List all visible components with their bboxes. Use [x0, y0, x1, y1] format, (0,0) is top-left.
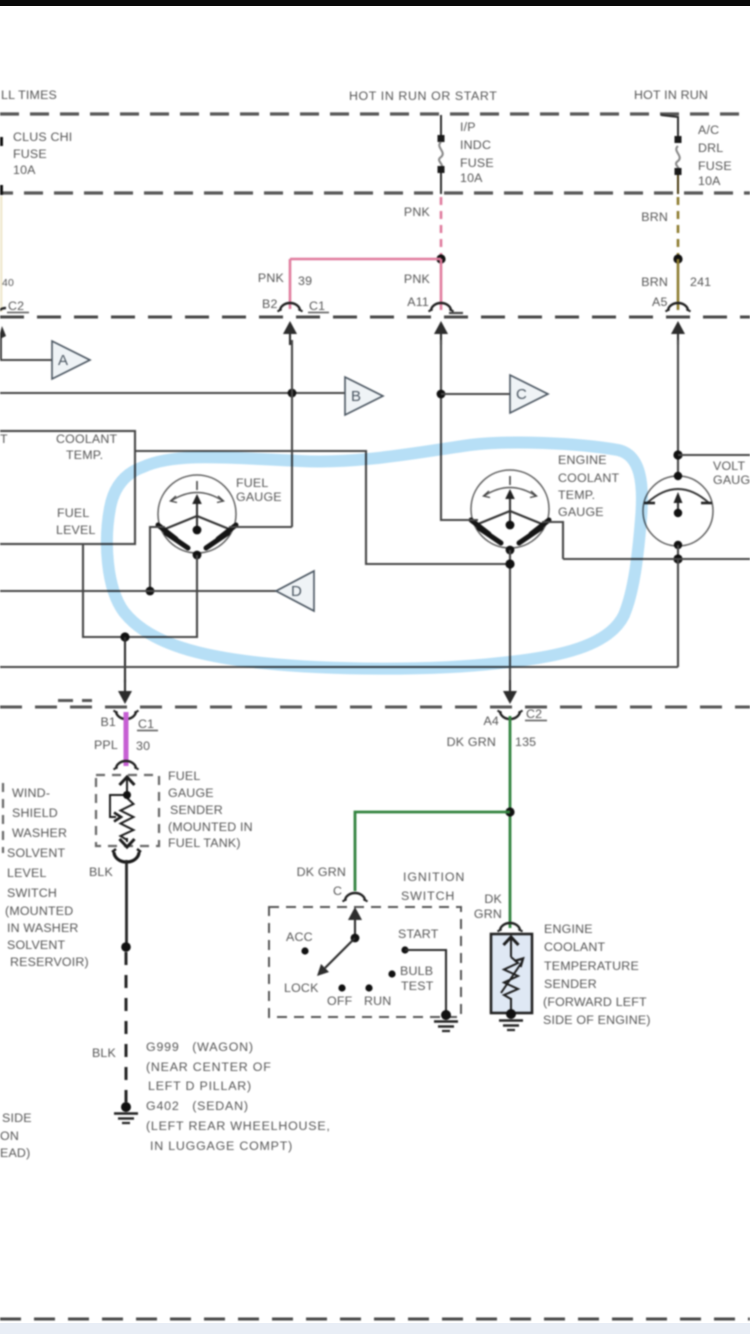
wire from B2 connector down [291, 340, 293, 527]
wire volt bottom [677, 545, 679, 559]
ignition switch box (dashed) [269, 907, 461, 1017]
svg-text:BRN: BRN [641, 210, 668, 224]
svg-text:B: B [351, 388, 361, 405]
wire bus y667 [0, 666, 678, 668]
svg-text:CLUS CHI: CLUS CHI [13, 130, 72, 144]
svg-text:C: C [516, 386, 527, 403]
svg-text:TEMP.: TEMP. [558, 488, 595, 502]
svg-text:COOLANT: COOLANT [544, 940, 606, 954]
coolant sender resistor element [501, 937, 523, 1012]
svg-text:D: D [291, 583, 302, 600]
svg-text:C1: C1 [309, 299, 325, 313]
svg-text:GRN: GRN [474, 907, 502, 921]
svg-text:PNK: PNK [258, 271, 285, 285]
fuse A/C DRL 10A [661, 115, 678, 139]
svg-text:C2: C2 [8, 299, 24, 313]
svg-text:DK: DK [484, 892, 502, 906]
wire PPL 30 [124, 712, 129, 766]
svg-text:GAUGE: GAUGE [168, 786, 214, 800]
connector A5 [666, 303, 691, 312]
triangle B [345, 377, 383, 415]
wire BRN dashed from fuse [677, 197, 680, 255]
svg-text:DK GRN: DK GRN [447, 735, 496, 749]
svg-text:A11: A11 [407, 295, 429, 309]
volt gauge [643, 472, 713, 549]
extra dash stub left [58, 699, 92, 702]
node junction brown [673, 254, 682, 263]
svg-text:G402 (SEDAN): G402 (SEDAN) [146, 1099, 249, 1113]
svg-text:WIND-: WIND- [12, 786, 50, 800]
svg-text:GAUGE: GAUGE [713, 473, 750, 487]
svg-text:C: C [333, 884, 342, 898]
connector A11 [429, 303, 454, 312]
connector below fuel sender [114, 852, 139, 862]
wire ORN 40 (left edge, cut off) [0, 196, 3, 312]
svg-text:I/P: I/P [460, 120, 476, 134]
svg-text:LOCK: LOCK [284, 981, 319, 995]
svg-text:PPL: PPL [94, 738, 118, 752]
engine coolant temp gauge [471, 470, 549, 554]
svg-text:39: 39 [298, 274, 312, 288]
ground G999/G402 [114, 1102, 138, 1123]
svg-text:10A: 10A [698, 174, 721, 188]
svg-text:SOLVENT: SOLVENT [7, 938, 66, 952]
wire PNK horizontal branch 39 [290, 258, 441, 260]
washer switch box edge (cut off) [2, 783, 4, 853]
svg-text:A4: A4 [483, 714, 499, 728]
fuse I/P INDC 10A [440, 115, 442, 139]
svg-text:C2: C2 [526, 707, 542, 721]
fuse block rail top [0, 112, 750, 115]
wire from A11 connector down [440, 340, 442, 521]
svg-text:ON: ON [0, 1129, 19, 1143]
svg-text:SWITCH: SWITCH [401, 889, 455, 903]
wire to triangle C [441, 393, 510, 395]
svg-text:(MOUNTED: (MOUNTED [5, 904, 73, 918]
svg-text:SIDE: SIDE [2, 1111, 32, 1125]
svg-text:FUEL TANK): FUEL TANK) [168, 836, 241, 850]
engine coolant temperature sender box [491, 934, 532, 1013]
svg-text:OFF: OFF [327, 994, 353, 1008]
triangle D [276, 571, 314, 611]
svg-text:START: START [398, 927, 439, 941]
wire PNK vertical to B2 [289, 259, 292, 309]
svg-text:FUEL: FUEL [168, 769, 200, 783]
connector C2 stub at left edge [0, 308, 6, 316]
bottom rail [0, 1318, 750, 1321]
wire BLK dashed [125, 952, 128, 1102]
svg-text:HOT IN RUN: HOT IN RUN [634, 88, 708, 102]
svg-text:IN LUGGAGE COMPT): IN LUGGAGE COMPT) [150, 1139, 293, 1153]
node at B wire [288, 389, 297, 398]
svg-text:B1: B1 [100, 715, 116, 729]
ground at ignition switch [434, 1010, 458, 1031]
connector rail B1-C1 / A4-C2 [0, 706, 750, 709]
wire from box COOLANT TEMP terminal [135, 451, 510, 564]
node BLK [121, 942, 131, 952]
svg-text:A: A [58, 352, 68, 369]
svg-text:30: 30 [136, 739, 150, 753]
ignition switch arrow up [354, 919, 356, 938]
fuse CLUS CHI 10A (cut off at left edge) [0, 137, 3, 146]
svg-text:TEMP.: TEMP. [66, 448, 103, 462]
svg-text:10A: 10A [460, 171, 483, 185]
wire volt down leg [677, 559, 679, 667]
svg-text:LEVEL: LEVEL [7, 866, 47, 880]
svg-text:EAD): EAD) [0, 1146, 30, 1160]
tick next to A11 connector [449, 312, 463, 314]
node junction pink [436, 254, 445, 263]
wire BRN solid to A5 [677, 259, 680, 310]
svg-text:RESERVOIR): RESERVOIR) [10, 955, 89, 969]
wire coolant gauge bottom down to A4 [509, 550, 511, 680]
triangle C [510, 375, 548, 413]
svg-text:A/C: A/C [698, 123, 719, 137]
svg-text:BRN: BRN [641, 275, 668, 289]
svg-text:T: T [0, 432, 8, 446]
svg-text:(NEAR CENTER OF: (NEAR CENTER OF [146, 1060, 272, 1074]
wire volt branch right [678, 454, 750, 456]
wire to triangle D [0, 590, 276, 592]
svg-text:BLK: BLK [92, 1046, 117, 1060]
wire coolant gauge right terminal step [542, 522, 563, 559]
node on fuel sender feed [120, 632, 129, 641]
svg-text:GAUGE: GAUGE [236, 490, 282, 504]
svg-text:C1: C1 [138, 717, 154, 731]
svg-text:ENGINE: ENGINE [544, 922, 593, 936]
position dot RUN [365, 984, 372, 991]
svg-text:B2: B2 [262, 297, 278, 311]
volt gauge feeder wire [677, 340, 679, 476]
svg-text:DK GRN: DK GRN [297, 865, 346, 879]
svg-text:INDC: INDC [460, 138, 491, 152]
svg-text:BULB: BULB [400, 964, 433, 978]
fuel gauge sender box (dashed) [96, 775, 159, 846]
svg-text:G999 (WAGON): G999 (WAGON) [146, 1040, 254, 1054]
ground at coolant sender [499, 1009, 523, 1030]
svg-text:SWITCH: SWITCH [7, 886, 57, 900]
connector B1/C1 [114, 711, 139, 720]
position dot BULB TEST [388, 970, 395, 977]
ignition lever to LOCK [325, 938, 355, 968]
svg-text:SENDER: SENDER [170, 803, 223, 817]
svg-text:LEVEL: LEVEL [56, 523, 96, 537]
svg-text:HOT IN RUN OR START: HOT IN RUN OR START [349, 89, 497, 103]
svg-text:WASHER: WASHER [12, 826, 67, 840]
svg-text:LL TIMES: LL TIMES [1, 88, 57, 102]
position dot OFF [338, 984, 345, 991]
wire coolant gauge left terminal [441, 519, 478, 521]
wire fuel gauge left terminal [150, 527, 165, 591]
svg-text:ENGINE: ENGINE [558, 453, 607, 467]
svg-text:SOLVENT: SOLVENT [7, 846, 66, 860]
connector A4/C2 [498, 711, 523, 720]
svg-text:VOLT: VOLT [713, 459, 745, 473]
svg-text:PNK: PNK [404, 272, 431, 286]
wire PNK solid down to A11 [440, 259, 443, 310]
fuse block rail bottom [0, 191, 750, 194]
wire PNK dashed from fuse [440, 197, 443, 255]
svg-text:135: 135 [515, 735, 536, 749]
instrument cluster box COOLANT TEMP / FUEL LEVEL [0, 431, 135, 544]
connector C at ignition switch [343, 893, 368, 902]
wire fuel gauge bottom to FUEL LEVEL [83, 544, 197, 637]
wire to triangle A [0, 359, 52, 361]
svg-text:IGNITION: IGNITION [403, 870, 465, 884]
svg-text:A5: A5 [652, 295, 668, 309]
wire BLK solid [125, 860, 128, 947]
svg-text:GAUGE: GAUGE [558, 505, 604, 519]
svg-text:FUEL: FUEL [236, 476, 268, 490]
svg-text:SIDE OF ENGINE): SIDE OF ENGINE) [543, 1013, 651, 1027]
svg-text:TEMPERATURE: TEMPERATURE [544, 959, 639, 973]
node coolant bottom [505, 559, 514, 568]
wire bus y559 [563, 558, 750, 560]
node volt top [673, 450, 682, 459]
node on D wire [146, 587, 155, 596]
svg-text:COOLANT: COOLANT [56, 432, 118, 446]
position dot ACC [301, 947, 308, 954]
svg-text:10A: 10A [13, 163, 36, 177]
fuel sender resistor element [110, 777, 135, 847]
svg-text:(MOUNTED IN: (MOUNTED IN [168, 820, 253, 834]
wire DK GRN branch to ignition switch [355, 812, 510, 891]
svg-text:PNK: PNK [404, 205, 431, 219]
node volt bottom [673, 554, 682, 563]
connector at fuel sender [114, 761, 139, 770]
wire down to B1 connector [124, 637, 126, 682]
wire START to ground [405, 950, 446, 1012]
connector rail C1/C2 [0, 316, 750, 319]
svg-text:FUSE: FUSE [460, 156, 494, 170]
svg-text:TEST: TEST [401, 979, 434, 993]
svg-text:SENDER: SENDER [544, 977, 597, 991]
svg-text:FUSE: FUSE [698, 159, 732, 173]
triangle A [52, 341, 90, 379]
svg-text:FUSE: FUSE [13, 147, 47, 161]
svg-text:(FORWARD LEFT: (FORWARD LEFT [543, 995, 647, 1009]
connector B2/C1 [278, 303, 303, 312]
svg-text:SHIELD: SHIELD [12, 806, 58, 820]
svg-text:LEFT D PILLAR): LEFT D PILLAR) [148, 1079, 252, 1093]
ignition pivot [351, 934, 360, 943]
svg-text:(LEFT REAR WHEELHOUSE,: (LEFT REAR WHEELHOUSE, [146, 1119, 331, 1133]
svg-text:ACC: ACC [286, 930, 313, 944]
svg-text:40: 40 [2, 277, 14, 289]
fuel gauge [158, 475, 236, 559]
svg-text:BLK: BLK [89, 865, 114, 879]
node in fuel sender [123, 791, 131, 799]
svg-text:241: 241 [690, 275, 711, 289]
wire DK GRN 135 [509, 716, 512, 928]
annotation: hand-drawn blue loop [107, 443, 642, 669]
node at C wire [437, 390, 446, 399]
wire fuel gauge right terminal [229, 526, 292, 528]
position dot START [401, 946, 408, 953]
wire to triangle B [0, 392, 345, 394]
svg-text:DRL: DRL [698, 141, 723, 155]
connector at coolant sender [498, 923, 523, 932]
node green branch [505, 807, 514, 816]
svg-text:FUEL: FUEL [57, 506, 89, 520]
svg-text:COOLANT: COOLANT [558, 471, 620, 485]
svg-text:RUN: RUN [364, 994, 391, 1008]
svg-text:IN WASHER: IN WASHER [7, 921, 79, 935]
